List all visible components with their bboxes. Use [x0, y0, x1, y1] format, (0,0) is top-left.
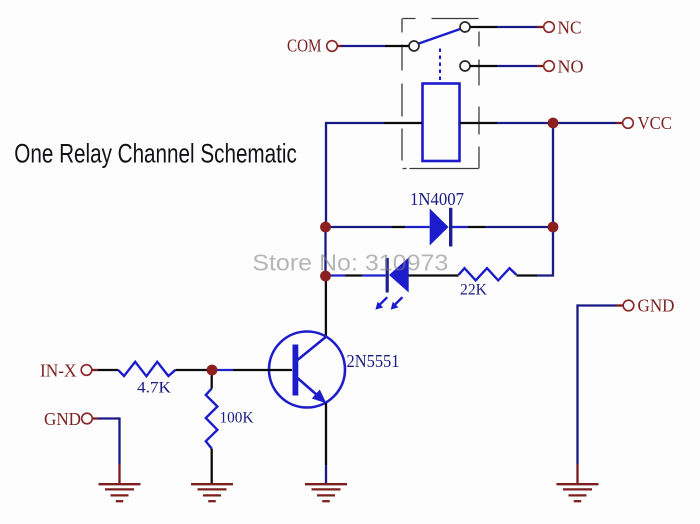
port NC label	[558, 18, 582, 38]
LED light arrow 2	[391, 297, 403, 309]
svg-text:GND: GND	[44, 409, 81, 429]
ground below Q1 emitter	[305, 484, 347, 501]
port GND left terminal	[82, 413, 93, 424]
title	[14, 139, 297, 169]
wire Q1 emitter to ground	[325, 403, 327, 483]
svg-text:4.7K: 4.7K	[137, 380, 171, 397]
resistor R3 100K	[206, 389, 218, 449]
ground below GND left	[99, 484, 141, 501]
junction base node	[207, 365, 218, 376]
svg-text:VCC: VCC	[638, 113, 673, 133]
junction LED row left node	[320, 271, 331, 282]
port VCC label	[638, 113, 673, 133]
value label 1N4007	[410, 189, 464, 209]
svg-text:GND: GND	[638, 296, 675, 316]
port NO label	[558, 57, 584, 77]
port VCC terminal	[623, 118, 634, 129]
value label 100K	[220, 410, 254, 427]
relay common pivot contact	[409, 41, 419, 51]
value label 2N5551	[347, 351, 400, 371]
port GND left label	[44, 409, 81, 429]
svg-text:NC: NC	[558, 18, 582, 38]
port GND right terminal	[623, 300, 634, 311]
relay coil	[423, 84, 460, 162]
transistor Q1 2N5551	[269, 332, 345, 408]
wire base node down to R3	[211, 375, 213, 389]
relay K1 dashed outline	[402, 19, 479, 169]
svg-text:1N4007: 1N4007	[410, 189, 464, 209]
ground below R3	[191, 484, 233, 501]
svg-text:NO: NO	[558, 57, 584, 77]
svg-text:COM: COM	[287, 36, 322, 56]
port COM label	[287, 36, 322, 56]
relay NO contact	[460, 61, 470, 71]
junction VCC node	[548, 118, 559, 129]
port NC terminal	[544, 22, 555, 33]
wire GND left to ground	[92, 417, 120, 483]
port IN-X terminal	[81, 365, 92, 376]
wire GND right to ground	[578, 304, 624, 483]
wire right bus vertical	[552, 123, 554, 274]
relay switch blade	[418, 29, 461, 44]
port IN-X label	[40, 361, 77, 381]
relay armature dashed link	[439, 49, 441, 82]
svg-text:Store No: 310973: Store No: 310973	[252, 249, 448, 275]
wire NO contact to NO terminal	[470, 65, 544, 67]
resistor R1 4.7K	[118, 362, 176, 376]
wire VCC row through coil	[326, 122, 623, 124]
ground below GND right	[557, 484, 599, 501]
svg-text:IN-X: IN-X	[40, 361, 77, 381]
LED D2	[387, 258, 409, 293]
wire LED row	[326, 274, 555, 276]
wire IN-X to R1	[91, 369, 118, 371]
junction diode row left node	[320, 222, 331, 233]
junction diode row right node	[548, 222, 559, 233]
watermark	[252, 249, 448, 275]
svg-text:One Relay Channel Schematic: One Relay Channel Schematic	[14, 139, 297, 169]
wire NC contact to NC terminal	[470, 26, 544, 28]
LED light arrow 1	[375, 297, 387, 309]
svg-text:100K: 100K	[220, 410, 254, 427]
diode D1 1N4007	[430, 208, 451, 247]
port COM terminal	[327, 41, 338, 52]
port GND right label	[638, 296, 675, 316]
relay NC contact	[460, 22, 470, 32]
value label 4.7K	[137, 380, 171, 397]
resistor R2 22K	[459, 268, 517, 280]
value label 22K	[460, 282, 488, 299]
wire left bus vertical	[324, 122, 327, 337]
wire base node to Q1 base	[217, 369, 293, 371]
svg-text:22K: 22K	[460, 282, 488, 299]
wire R3 to ground	[211, 449, 213, 483]
wire R1 to base node	[176, 369, 208, 371]
wire COM terminal to pivot	[337, 45, 409, 47]
port NO terminal	[544, 61, 555, 72]
svg-text:2N5551: 2N5551	[347, 351, 400, 371]
wire flyback diode row	[326, 226, 554, 228]
